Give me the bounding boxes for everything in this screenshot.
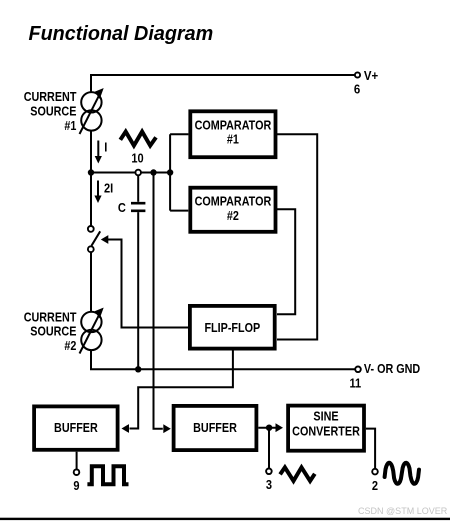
switch contact top [88, 226, 94, 232]
svg-text:C: C [118, 200, 126, 215]
wire node row [90, 172, 170, 174]
comparator U2 box [190, 188, 275, 232]
waveform icon triangle wave [280, 467, 315, 481]
svg-text:CURRENT: CURRENT [24, 309, 77, 324]
junction node left [88, 169, 94, 175]
waveform icon sine wave [385, 463, 419, 484]
waveform icon triangle at pin 10 [120, 132, 156, 146]
svg-text:V- OR GND: V- OR GND [364, 361, 421, 376]
label pin 11 [349, 376, 361, 391]
watermark [358, 506, 448, 516]
pin 2 open circle [372, 469, 378, 475]
wire node row to switch [90, 173, 92, 227]
svg-text:BUFFER: BUFFER [54, 420, 98, 435]
wire from V+ rail to current source #1 [90, 74, 92, 92]
svg-text:COMPARATOR: COMPARATOR [195, 194, 272, 209]
label CURRENT SOURCE #2 [24, 309, 77, 324]
svg-text:V+: V+ [364, 68, 378, 83]
pin 10 open circle [135, 170, 141, 176]
svg-text:10: 10 [131, 151, 144, 166]
svg-text:COMPARATOR: COMPARATOR [195, 117, 272, 132]
buffer B box [174, 406, 257, 450]
junction node mid [150, 169, 156, 175]
label pin 9 [73, 478, 79, 493]
wire CS#2 to GND rail [90, 350, 92, 369]
wire pin 2 [366, 429, 375, 469]
svg-text:2: 2 [372, 478, 378, 493]
svg-text:#2: #2 [227, 208, 239, 223]
capacitor C plates [131, 203, 145, 211]
bottom border line [0, 518, 450, 520]
switch contact bottom [88, 246, 94, 252]
wire comparator inputs [170, 134, 188, 210]
wire pin 9 [76, 452, 78, 470]
pin 3 open circle [266, 469, 272, 475]
pin 11 open circle [355, 367, 361, 373]
svg-text:11: 11 [349, 376, 361, 391]
switch control arrow from flip-flop [107, 240, 189, 328]
label pin 3 [266, 477, 272, 492]
current source #2 [80, 312, 102, 354]
wire CS#1 to node row [90, 131, 92, 173]
svg-text:#2: #2 [64, 338, 76, 353]
svg-text:#1: #1 [227, 132, 239, 147]
current arrow I [97, 141, 99, 157]
wire triangle to buffer2 [154, 173, 163, 429]
svg-text:Functional Diagram: Functional Diagram [29, 23, 214, 45]
label CURRENT SOURCE #1 [24, 89, 77, 104]
junction buffer B output [266, 425, 272, 431]
label 2I [104, 181, 113, 196]
svg-text:2I: 2I [104, 181, 113, 196]
svg-text:9: 9 [73, 478, 79, 493]
wire V+ rail [91, 74, 355, 76]
sine converter box [288, 406, 364, 451]
svg-text:SOURCE: SOURCE [30, 103, 76, 118]
label I [104, 140, 107, 155]
wire comparator 1 output to flip-flop [277, 134, 317, 339]
svg-text:FLIP-FLOP: FLIP-FLOP [204, 320, 260, 335]
label V- OR GND [364, 361, 421, 376]
current arrow 2I [97, 181, 99, 196]
pin 9 open circle [74, 469, 80, 475]
label C [118, 200, 126, 215]
svg-text:BUFFER: BUFFER [193, 420, 237, 435]
waveform icon square wave [87, 466, 128, 484]
svg-text:CONVERTER: CONVERTER [292, 424, 360, 439]
wire flip-flop to buffer1 [130, 351, 233, 429]
label pin 6 [354, 82, 361, 97]
wire GND rail [90, 368, 355, 370]
label 10 [131, 151, 144, 166]
current source #1 [80, 92, 102, 134]
svg-text:#1: #1 [64, 118, 76, 133]
title Functional Diagram [29, 23, 214, 45]
svg-text:CURRENT: CURRENT [24, 89, 77, 104]
wire switch to CS#2 [90, 252, 92, 312]
wire comparator 2 output to flip-flop [277, 209, 295, 314]
flip-flop box [190, 306, 275, 349]
wire pin 3 [268, 428, 270, 469]
svg-text:I: I [104, 140, 107, 155]
wire buffer B to sine converter [258, 427, 275, 429]
svg-text:CSDN @STM LOVER: CSDN @STM LOVER [358, 506, 448, 516]
svg-text:3: 3 [266, 477, 272, 492]
label pin 2 [372, 478, 378, 493]
node pin6 open circle [355, 72, 360, 77]
junction node right [167, 169, 173, 175]
switch blade [92, 231, 101, 245]
svg-text:SOURCE: SOURCE [30, 324, 76, 339]
svg-text:SINE: SINE [313, 409, 338, 424]
svg-text:6: 6 [354, 82, 361, 97]
label V+ [364, 68, 378, 83]
buffer A box [34, 406, 118, 449]
wire capacitor branch [137, 175, 139, 202]
comparator U1 box [190, 111, 275, 157]
junction cap to GND rail [135, 366, 141, 372]
